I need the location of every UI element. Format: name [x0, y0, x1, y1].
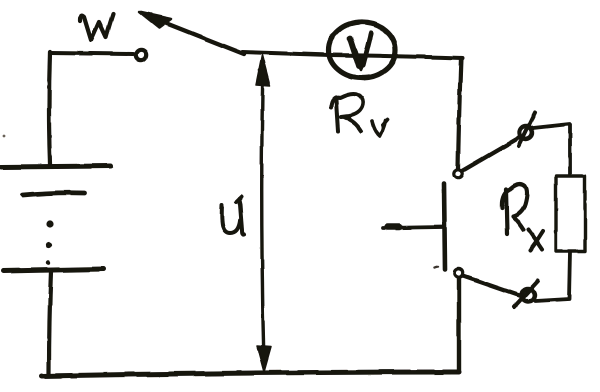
wire left vertical (battery down to bottom wire) [49, 271, 51, 374]
voltmeter V circle [329, 22, 396, 78]
lower jack open circle [455, 269, 463, 277]
U arrow bottom arrowhead [257, 346, 271, 372]
stray ink speck left margin [3, 135, 6, 138]
top wire (passing through voltmeter to right corner) [330, 55, 462, 58]
switch W lever arrowhead [139, 12, 171, 28]
top wire (switch junction up to voltmeter) [243, 52, 330, 55]
label U [222, 197, 244, 235]
battery dot 3 [46, 261, 50, 265]
wire resistor bottom to lower plug [535, 252, 570, 301]
battery plate 2 (short) [23, 193, 84, 195]
upper jack open circle [454, 170, 462, 178]
lower jack diagonal wire [463, 276, 521, 296]
right vertical wire (top corner down to upper jack) [458, 58, 461, 169]
battery dot 2 [46, 242, 52, 248]
label Rv : v subscript [372, 119, 388, 136]
upper plug circle with slash [520, 127, 533, 140]
battery dot 1 [46, 220, 53, 227]
lower plug circle with slash [522, 289, 535, 302]
upper jack diagonal wire [462, 136, 522, 171]
right vertical wire (lower jack down to bottom wire) [457, 278, 461, 372]
contact actuation arrow [383, 227, 442, 228]
movable contact bar [444, 184, 445, 269]
U arrow vertical line [262, 62, 264, 366]
switch W fixed contact circle [136, 50, 146, 60]
stray ink speck near contact bar [434, 266, 438, 267]
wire top-left horizontal (battery to switch contact) [50, 53, 133, 54]
wire left vertical (top corner down to battery) [49, 52, 50, 164]
voltmeter letter V [350, 38, 359, 66]
switch W lever arm [163, 22, 244, 54]
label W [80, 14, 113, 40]
resistor Rx body [556, 176, 585, 251]
U arrow top arrowhead [256, 55, 270, 86]
battery plate 1 (long, top) [1, 166, 111, 167]
label Rx : R [502, 184, 527, 234]
wire upper plug to resistor top [533, 124, 570, 175]
battery plate 3 (long, bottom) [3, 269, 103, 271]
bottom wire [42, 372, 459, 376]
label Rv : R [331, 94, 363, 131]
label Rx : x subscript [529, 230, 543, 250]
